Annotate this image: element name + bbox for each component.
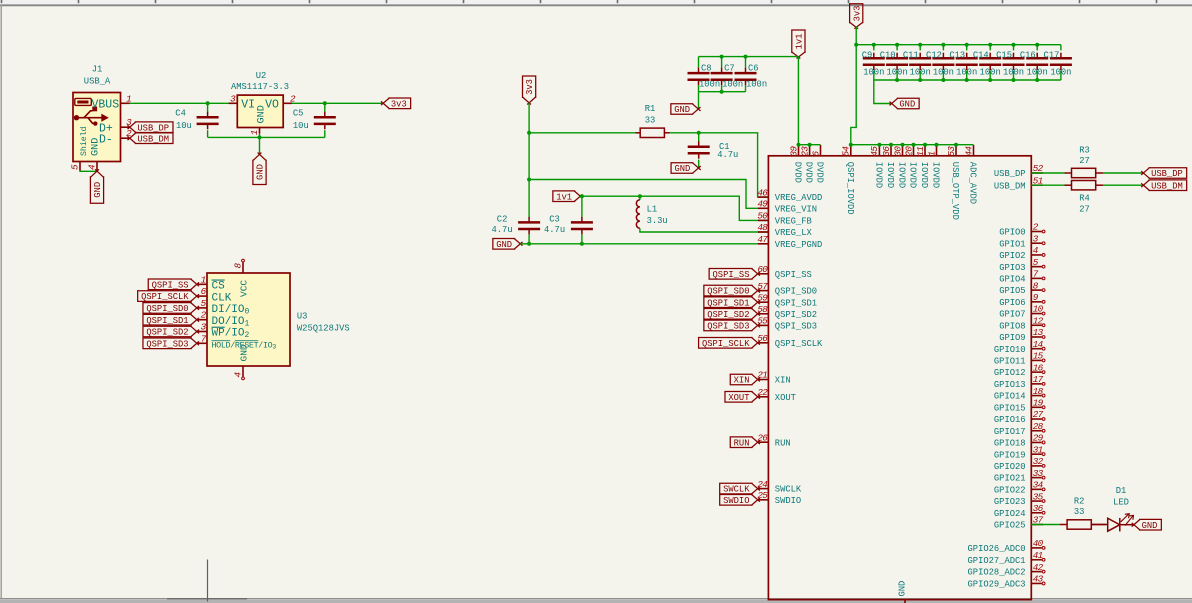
U1 left pin 60 QSPI_SS xyxy=(757,264,811,280)
svg-text:GPIO4: GPIO4 xyxy=(999,274,1025,284)
svg-text:IOVDD: IOVDD xyxy=(897,162,907,188)
power label GND at vreg rail xyxy=(493,239,523,250)
svg-text:J1: J1 xyxy=(92,65,103,75)
svg-text:QSPI_SD3: QSPI_SD3 xyxy=(707,322,749,332)
U1 right pin 27 GPIO16 xyxy=(994,409,1045,425)
U3 pin 5 xyxy=(197,298,250,317)
svg-text:RUN: RUN xyxy=(775,438,791,448)
svg-text:QSPI_SCLK: QSPI_SCLK xyxy=(775,339,823,349)
svg-text:GPIO22: GPIO22 xyxy=(994,485,1026,495)
U1 left pin 47 VREG_PGND xyxy=(757,234,822,250)
U1 left pin 22 XOUT xyxy=(757,387,795,403)
svg-text:28: 28 xyxy=(1033,421,1044,432)
wire U2 gnd stub xyxy=(259,134,261,155)
U1 right pin 5 GPIO3 xyxy=(999,257,1045,273)
svg-text:3v3: 3v3 xyxy=(852,6,862,22)
wire IOVDD rail xyxy=(851,144,974,146)
U1 top pin 54 QSPI_IOVDD xyxy=(841,145,855,215)
svg-text:GND: GND xyxy=(257,105,268,123)
wire C9 row bottom rail xyxy=(874,79,1061,81)
U1 right pin 10 GPIO7 xyxy=(999,304,1045,320)
mcu U1 RP2040 body xyxy=(768,156,1031,600)
U1 right pin 4 GPIO2 xyxy=(999,245,1045,261)
svg-text:35: 35 xyxy=(1033,491,1044,502)
svg-text:GPIO28_ADC2: GPIO28_ADC2 xyxy=(968,568,1026,578)
junction IOVDD rail xyxy=(954,143,958,147)
svg-text:USB_DP: USB_DP xyxy=(137,123,169,133)
svg-text:GPIO7: GPIO7 xyxy=(999,310,1025,320)
svg-text:Shield: Shield xyxy=(79,126,89,156)
svg-text:53: 53 xyxy=(946,146,957,157)
wire 3v3 vertical to C2 xyxy=(528,103,530,218)
U1 right pin 51 USB_DM xyxy=(994,175,1043,191)
svg-text:VI: VI xyxy=(241,98,255,111)
wire C8 top rail xyxy=(699,56,799,58)
U1 left pin 46 VREG_AVDD xyxy=(757,187,822,203)
capacitor C2 4.7u xyxy=(492,214,541,243)
U1 left pin 59 QSPI_SD1 xyxy=(757,292,817,308)
svg-text:100n: 100n xyxy=(887,68,908,78)
label SWDIO xyxy=(720,495,760,506)
svg-text:QSPI_SD2: QSPI_SD2 xyxy=(707,310,749,320)
svg-text:12: 12 xyxy=(1033,315,1044,326)
U1 right pin 40 GPIO26_ADC0 xyxy=(968,538,1045,554)
svg-text:1v1: 1v1 xyxy=(795,34,805,50)
svg-text:GND: GND xyxy=(674,164,690,174)
U1 right pin 2 GPIO0 xyxy=(999,222,1045,238)
svg-text:44: 44 xyxy=(963,146,974,157)
capacitor C6 100n xyxy=(735,57,768,92)
svg-text:QSPI_SCLK: QSPI_SCLK xyxy=(702,339,750,349)
U1 right pin 9 GPIO6 xyxy=(999,292,1045,308)
U1 left pin 21 XIN xyxy=(757,370,790,386)
wire gnd rail C4-U2-C5 xyxy=(208,136,325,138)
wire 3v3 to VREG_VIN xyxy=(529,180,768,209)
svg-text:D1: D1 xyxy=(1116,486,1127,496)
svg-text:QSPI_SD3: QSPI_SD3 xyxy=(775,322,817,332)
U1 right pin 42 GPIO28_ADC2 xyxy=(968,562,1045,578)
junction 3v3/vreg-vin xyxy=(527,178,531,182)
svg-text:30: 30 xyxy=(892,146,903,157)
svg-text:33: 33 xyxy=(1033,468,1044,479)
resistor R1 33 xyxy=(529,104,669,138)
svg-text:1: 1 xyxy=(249,130,260,135)
junction C6 top xyxy=(744,55,748,59)
svg-text:C16: C16 xyxy=(1020,51,1036,61)
svg-text:QSPI_SD1: QSPI_SD1 xyxy=(707,298,749,308)
svg-text:WP/IO2: WP/IO2 xyxy=(212,328,250,341)
U1 right pin 36 GPIO24 xyxy=(994,503,1045,519)
svg-text:QSPI_SD0: QSPI_SD0 xyxy=(707,287,749,297)
svg-text:27: 27 xyxy=(1079,204,1090,214)
label USB_DP at J1 xyxy=(128,122,173,133)
label QSPI_SS at U3 xyxy=(148,279,199,290)
junction cap rail top xyxy=(918,43,922,47)
U1 right pin 43 GPIO29_ADC3 xyxy=(968,574,1045,590)
svg-text:46: 46 xyxy=(757,187,768,198)
U1 left pin 58 QSPI_SD2 xyxy=(757,304,817,320)
svg-text:C9: C9 xyxy=(862,51,873,61)
svg-text:C3: C3 xyxy=(549,214,560,224)
svg-text:R3: R3 xyxy=(1079,145,1090,155)
svg-text:USB_A: USB_A xyxy=(84,77,111,87)
wire VBUS J1 to U2 xyxy=(130,102,230,104)
svg-text:GPIO23: GPIO23 xyxy=(994,497,1026,507)
label QSPI_SD3 at U3 xyxy=(143,338,199,349)
svg-text:VREG_LX: VREG_LX xyxy=(775,228,813,238)
svg-text:GPIO13: GPIO13 xyxy=(994,380,1026,390)
power label GND at C8 xyxy=(671,104,701,115)
wire C9 row top rail xyxy=(856,44,1061,46)
svg-text:17: 17 xyxy=(1033,374,1044,385)
svg-text:IOVDD: IOVDD xyxy=(873,162,883,188)
junction C2 gnd xyxy=(527,242,531,246)
svg-text:14: 14 xyxy=(1033,339,1044,350)
svg-text:43: 43 xyxy=(1033,574,1044,585)
svg-text:GPIO19: GPIO19 xyxy=(994,450,1026,460)
svg-text:IOVDD: IOVDD xyxy=(931,162,941,188)
svg-text:U3: U3 xyxy=(297,312,308,322)
svg-text:DVDD: DVDD xyxy=(815,162,825,183)
capacitor C15 100n xyxy=(996,45,1024,80)
U1 left pin 55 QSPI_SD3 xyxy=(757,316,817,332)
junction R1/C1 xyxy=(697,131,701,135)
svg-text:R4: R4 xyxy=(1079,193,1090,203)
power label 1v1 left xyxy=(553,191,583,202)
svg-text:GPIO3: GPIO3 xyxy=(999,263,1025,273)
capacitor C1 4.7u xyxy=(688,133,739,168)
svg-text:100n: 100n xyxy=(933,68,954,78)
svg-text:USB_DM: USB_DM xyxy=(994,181,1026,191)
svg-text:VBUS: VBUS xyxy=(92,99,120,112)
capacitor C9 100n xyxy=(862,45,885,80)
svg-text:54: 54 xyxy=(841,146,852,157)
svg-text:32: 32 xyxy=(1033,456,1044,467)
J1 pin 2 D- xyxy=(99,128,132,146)
svg-text:GND: GND xyxy=(496,240,512,250)
label RUN xyxy=(730,437,760,448)
connector J1 USB_A xyxy=(73,65,121,162)
capacitor C14 100n xyxy=(973,45,1001,80)
svg-text:QSPI_SD1: QSPI_SD1 xyxy=(775,298,817,308)
svg-text:QSPI_SD3: QSPI_SD3 xyxy=(146,339,188,349)
svg-text:100n: 100n xyxy=(910,68,931,78)
svg-text:3.3u: 3.3u xyxy=(647,216,668,226)
svg-text:4.7u: 4.7u xyxy=(717,150,738,160)
junction 1v1/L1 xyxy=(638,194,642,198)
J1 usb trident icon xyxy=(74,107,109,126)
svg-text:4.7u: 4.7u xyxy=(492,225,513,235)
svg-text:40: 40 xyxy=(1033,538,1044,549)
svg-text:USB_DP: USB_DP xyxy=(994,169,1026,179)
wire R3 to USB_DP label xyxy=(1103,172,1143,174)
svg-text:36: 36 xyxy=(1033,503,1044,514)
junction cap rail top xyxy=(1012,43,1016,47)
resistor R2 33 xyxy=(1031,496,1106,529)
junction cap rail bottom xyxy=(941,78,945,82)
junction cap rail bottom xyxy=(965,78,969,82)
svg-text:GND: GND xyxy=(93,182,103,198)
J1 pin 4 GND xyxy=(87,138,102,171)
capacitor C12 100n xyxy=(926,45,954,80)
U1 top pin 39 DVDD xyxy=(788,145,802,183)
power label 1v1 top xyxy=(792,30,805,59)
U3 pin 1 xyxy=(197,274,225,292)
svg-text:GPIO10: GPIO10 xyxy=(994,345,1026,355)
U1 right pin 31 GPIO19 xyxy=(994,444,1045,460)
junction cap rail top xyxy=(872,43,876,47)
power label GND at LED xyxy=(1132,519,1162,530)
wire U2 VO to 3v3 xyxy=(292,102,383,104)
svg-text:33: 33 xyxy=(1074,507,1085,517)
svg-text:USB_DP: USB_DP xyxy=(1151,169,1183,179)
svg-text:15: 15 xyxy=(1033,351,1044,362)
svg-text:100n: 100n xyxy=(1027,68,1048,78)
U2 pin 3 VI xyxy=(229,93,255,111)
J1 pin 3 D+ xyxy=(99,117,132,135)
label XIN xyxy=(730,374,760,385)
inductor L1 3.3u xyxy=(636,196,768,232)
svg-text:RUN: RUN xyxy=(734,438,750,448)
U1 right pin 29 GPIO18 xyxy=(994,433,1045,449)
U1 right pin 12 GPIO8 xyxy=(999,315,1045,331)
U1 left pin 26 RUN xyxy=(757,432,790,448)
junction VBUS at C4 xyxy=(206,101,210,105)
svg-text:C15: C15 xyxy=(996,51,1012,61)
svg-text:XOUT: XOUT xyxy=(728,393,749,403)
U1 right pin 32 GPIO20 xyxy=(994,456,1045,472)
svg-text:GPIO12: GPIO12 xyxy=(994,368,1026,378)
junction cap rail top xyxy=(895,43,899,47)
svg-text:GPIO17: GPIO17 xyxy=(994,427,1026,437)
junction cap rail top xyxy=(941,43,945,47)
junction cap rail top xyxy=(965,43,969,47)
svg-text:VREG_AVDD: VREG_AVDD xyxy=(775,193,823,203)
junction cap rail bottom xyxy=(918,78,922,82)
U1 top pin 11 IOVDD xyxy=(915,145,929,188)
svg-text:C8: C8 xyxy=(701,63,712,73)
junction U2 GND xyxy=(258,135,262,139)
svg-text:GPIO15: GPIO15 xyxy=(994,403,1026,413)
svg-text:C2: C2 xyxy=(497,214,508,224)
label QSPI_SCLK at U3 xyxy=(138,291,199,302)
capacitor C10 100n xyxy=(880,45,908,80)
svg-text:QSPI_SS: QSPI_SS xyxy=(152,280,189,290)
svg-text:ADC_AVDD: ADC_AVDD xyxy=(968,162,978,204)
svg-text:3v3: 3v3 xyxy=(525,79,535,95)
junction IOVDD rail xyxy=(923,143,927,147)
U3 pin 4 GND xyxy=(233,344,250,380)
svg-text:XIN: XIN xyxy=(734,376,750,386)
svg-text:DVDD: DVDD xyxy=(804,162,814,183)
U1 right pin 17 GPIO13 xyxy=(994,374,1045,390)
U1 bottom pin GND xyxy=(898,581,908,603)
U1 right pin 18 GPIO14 xyxy=(994,386,1045,402)
svg-text:36: 36 xyxy=(881,146,892,157)
capacitor C5 10u xyxy=(293,103,336,137)
svg-text:VREG_VIN: VREG_VIN xyxy=(775,204,817,214)
svg-text:VCC: VCC xyxy=(239,280,250,297)
label USB_DM at J1 xyxy=(128,133,173,144)
U1 right pin 15 GPIO11 xyxy=(994,351,1045,367)
label QSPI_SD3 at U1 xyxy=(704,320,760,331)
junction 3v3 cap rail xyxy=(854,43,858,47)
svg-text:IOVDD: IOVDD xyxy=(885,162,895,188)
wire C8 to gnd xyxy=(698,92,700,109)
svg-text:31: 31 xyxy=(1033,444,1043,455)
svg-text:DVDD: DVDD xyxy=(793,162,803,183)
U1 left pin 24 SWCLK xyxy=(757,479,801,495)
svg-text:XIN: XIN xyxy=(775,376,791,386)
svg-text:100n: 100n xyxy=(863,68,884,78)
power label GND at J1 xyxy=(90,169,103,203)
svg-text:USB_DM: USB_DM xyxy=(137,134,169,144)
resistor R4 27 xyxy=(1031,181,1103,215)
svg-text:QSPI_SCLK: QSPI_SCLK xyxy=(141,292,189,302)
label QSPI_SD2 at U3 xyxy=(143,326,199,337)
svg-text:11: 11 xyxy=(915,147,926,157)
label QSPI_SD1 at U1 xyxy=(704,297,760,308)
junction cap rail top xyxy=(988,43,992,47)
U1 left pin 49 VREG_VIN xyxy=(757,199,817,215)
svg-text:W25Q128JVS: W25Q128JVS xyxy=(297,324,350,334)
junction C3 gnd xyxy=(580,242,584,246)
capacitor C8 100n xyxy=(688,57,721,92)
svg-text:GND: GND xyxy=(898,581,908,597)
junction DVDD 39 xyxy=(797,143,801,147)
U1 right pin 8 GPIO5 xyxy=(999,280,1045,296)
svg-text:DI/IO0: DI/IO0 xyxy=(212,304,250,317)
junction IOVDD rail xyxy=(889,143,893,147)
J1 usb plug icon xyxy=(75,98,92,105)
junction IOVDD rail xyxy=(912,143,916,147)
junction IOVDD rail xyxy=(901,143,905,147)
svg-text:27: 27 xyxy=(1033,409,1044,420)
svg-text:GPIO11: GPIO11 xyxy=(994,357,1026,367)
svg-text:C17: C17 xyxy=(1044,51,1060,61)
U1 right pin 16 GPIO12 xyxy=(994,362,1045,378)
svg-text:39: 39 xyxy=(788,146,799,157)
wire vreg gnd rail xyxy=(521,243,769,245)
label XOUT xyxy=(725,392,760,403)
junction C7 top xyxy=(720,55,724,59)
U1 right pin 37 GPIO25 xyxy=(994,515,1044,531)
svg-text:SWDIO: SWDIO xyxy=(775,496,801,506)
svg-text:100n: 100n xyxy=(956,68,977,78)
J1 pin 5 Shield xyxy=(70,126,90,170)
U1 left pin 50 VREG_FB xyxy=(757,211,811,227)
svg-text:C5: C5 xyxy=(293,109,304,119)
U1 left pin 56 QSPI_SCLK xyxy=(757,333,823,349)
U1 left pin 25 SWDIO xyxy=(757,490,801,506)
U1 right pin 3 GPIO1 xyxy=(999,233,1045,249)
junction cap rail top xyxy=(1035,43,1039,47)
svg-text:USB_OTP_VDD: USB_OTP_VDD xyxy=(950,162,960,220)
junction DVDD 23 xyxy=(808,143,812,147)
svg-text:1v1: 1v1 xyxy=(556,192,572,202)
svg-text:GPIO9: GPIO9 xyxy=(999,333,1025,343)
svg-text:34: 34 xyxy=(1033,480,1044,491)
svg-text:GND: GND xyxy=(1142,521,1158,531)
U3 pin 3 xyxy=(197,322,250,341)
svg-text:100n: 100n xyxy=(1050,68,1071,78)
svg-text:VREG_FB: VREG_FB xyxy=(775,217,812,227)
svg-text:GPIO5: GPIO5 xyxy=(999,286,1025,296)
svg-text:C10: C10 xyxy=(880,51,896,61)
capacitor C16 100n xyxy=(1020,45,1048,80)
svg-text:GPIO21: GPIO21 xyxy=(994,474,1026,484)
svg-text:GPIO29_ADC3: GPIO29_ADC3 xyxy=(968,580,1026,590)
U1 left pin 48 VREG_LX xyxy=(757,222,812,238)
svg-text:GPIO6: GPIO6 xyxy=(999,298,1025,308)
svg-text:10: 10 xyxy=(1033,304,1044,315)
svg-text:49: 49 xyxy=(757,199,768,210)
svg-text:R2: R2 xyxy=(1074,496,1085,506)
svg-text:XOUT: XOUT xyxy=(775,393,796,403)
U3 pin 2 xyxy=(197,310,250,329)
svg-text:CS: CS xyxy=(212,281,226,293)
svg-text:100n: 100n xyxy=(980,68,1001,78)
wire J1 shield to gnd xyxy=(80,170,97,173)
svg-text:C12: C12 xyxy=(926,51,942,61)
resistor R3 27 xyxy=(1031,145,1103,177)
U1 left pin 57 QSPI_SD0 xyxy=(757,281,817,297)
svg-text:C4: C4 xyxy=(175,109,186,119)
power label GND below C1 xyxy=(671,163,701,174)
U1 right pin 35 GPIO23 xyxy=(994,491,1045,507)
wire DVDD rail xyxy=(798,144,820,146)
junction IOVDD rail xyxy=(935,143,939,147)
svg-text:50: 50 xyxy=(757,211,768,222)
svg-text:QSPI_SS: QSPI_SS xyxy=(775,270,812,280)
svg-text:GPIO25: GPIO25 xyxy=(994,521,1026,531)
svg-text:R1: R1 xyxy=(645,104,656,114)
U1 top pin 23 DVDD xyxy=(799,145,813,183)
svg-text:USB_DM: USB_DM xyxy=(1151,181,1183,191)
led D1 xyxy=(1091,486,1133,532)
svg-text:27: 27 xyxy=(1079,156,1090,166)
svg-text:18: 18 xyxy=(1033,386,1044,397)
U1 right pin 7 GPIO4 xyxy=(999,269,1045,285)
svg-text:QSPI_SD2: QSPI_SD2 xyxy=(775,310,817,320)
label QSPI_SD0 at U3 xyxy=(143,303,199,314)
capacitor C11 100n xyxy=(903,45,931,80)
svg-text:L1: L1 xyxy=(647,205,658,215)
U1 top pin 6 DVDD xyxy=(810,145,824,183)
svg-text:GPIO2: GPIO2 xyxy=(999,251,1025,261)
svg-text:10u: 10u xyxy=(293,121,309,131)
svg-text:1: 1 xyxy=(926,152,937,157)
junction IOVDD rail xyxy=(849,143,853,147)
flash U3 W25Q128JVS xyxy=(207,273,350,366)
svg-text:48: 48 xyxy=(757,222,768,233)
svg-text:100n: 100n xyxy=(699,80,720,90)
svg-text:VREG_PGND: VREG_PGND xyxy=(775,240,823,250)
svg-text:QSPI_SD2: QSPI_SD2 xyxy=(146,328,188,338)
junction 1v1/C3 xyxy=(580,194,584,198)
svg-text:1: 1 xyxy=(201,274,206,285)
U1 right pin 41 GPIO27_ADC1 xyxy=(968,550,1045,566)
U1 right pin 33 GPIO21 xyxy=(994,468,1045,484)
capacitor C3 4.7u xyxy=(544,196,593,244)
regulator U2 AMS1117-3.3 xyxy=(231,71,289,128)
wire 1v1 vertical xyxy=(797,57,799,145)
label USB_DM right xyxy=(1141,180,1186,191)
U1 top pin 30 IOVDD xyxy=(892,145,906,188)
svg-text:29: 29 xyxy=(1033,433,1044,444)
svg-text:GPIO20: GPIO20 xyxy=(994,462,1026,472)
svg-text:C14: C14 xyxy=(973,51,989,61)
